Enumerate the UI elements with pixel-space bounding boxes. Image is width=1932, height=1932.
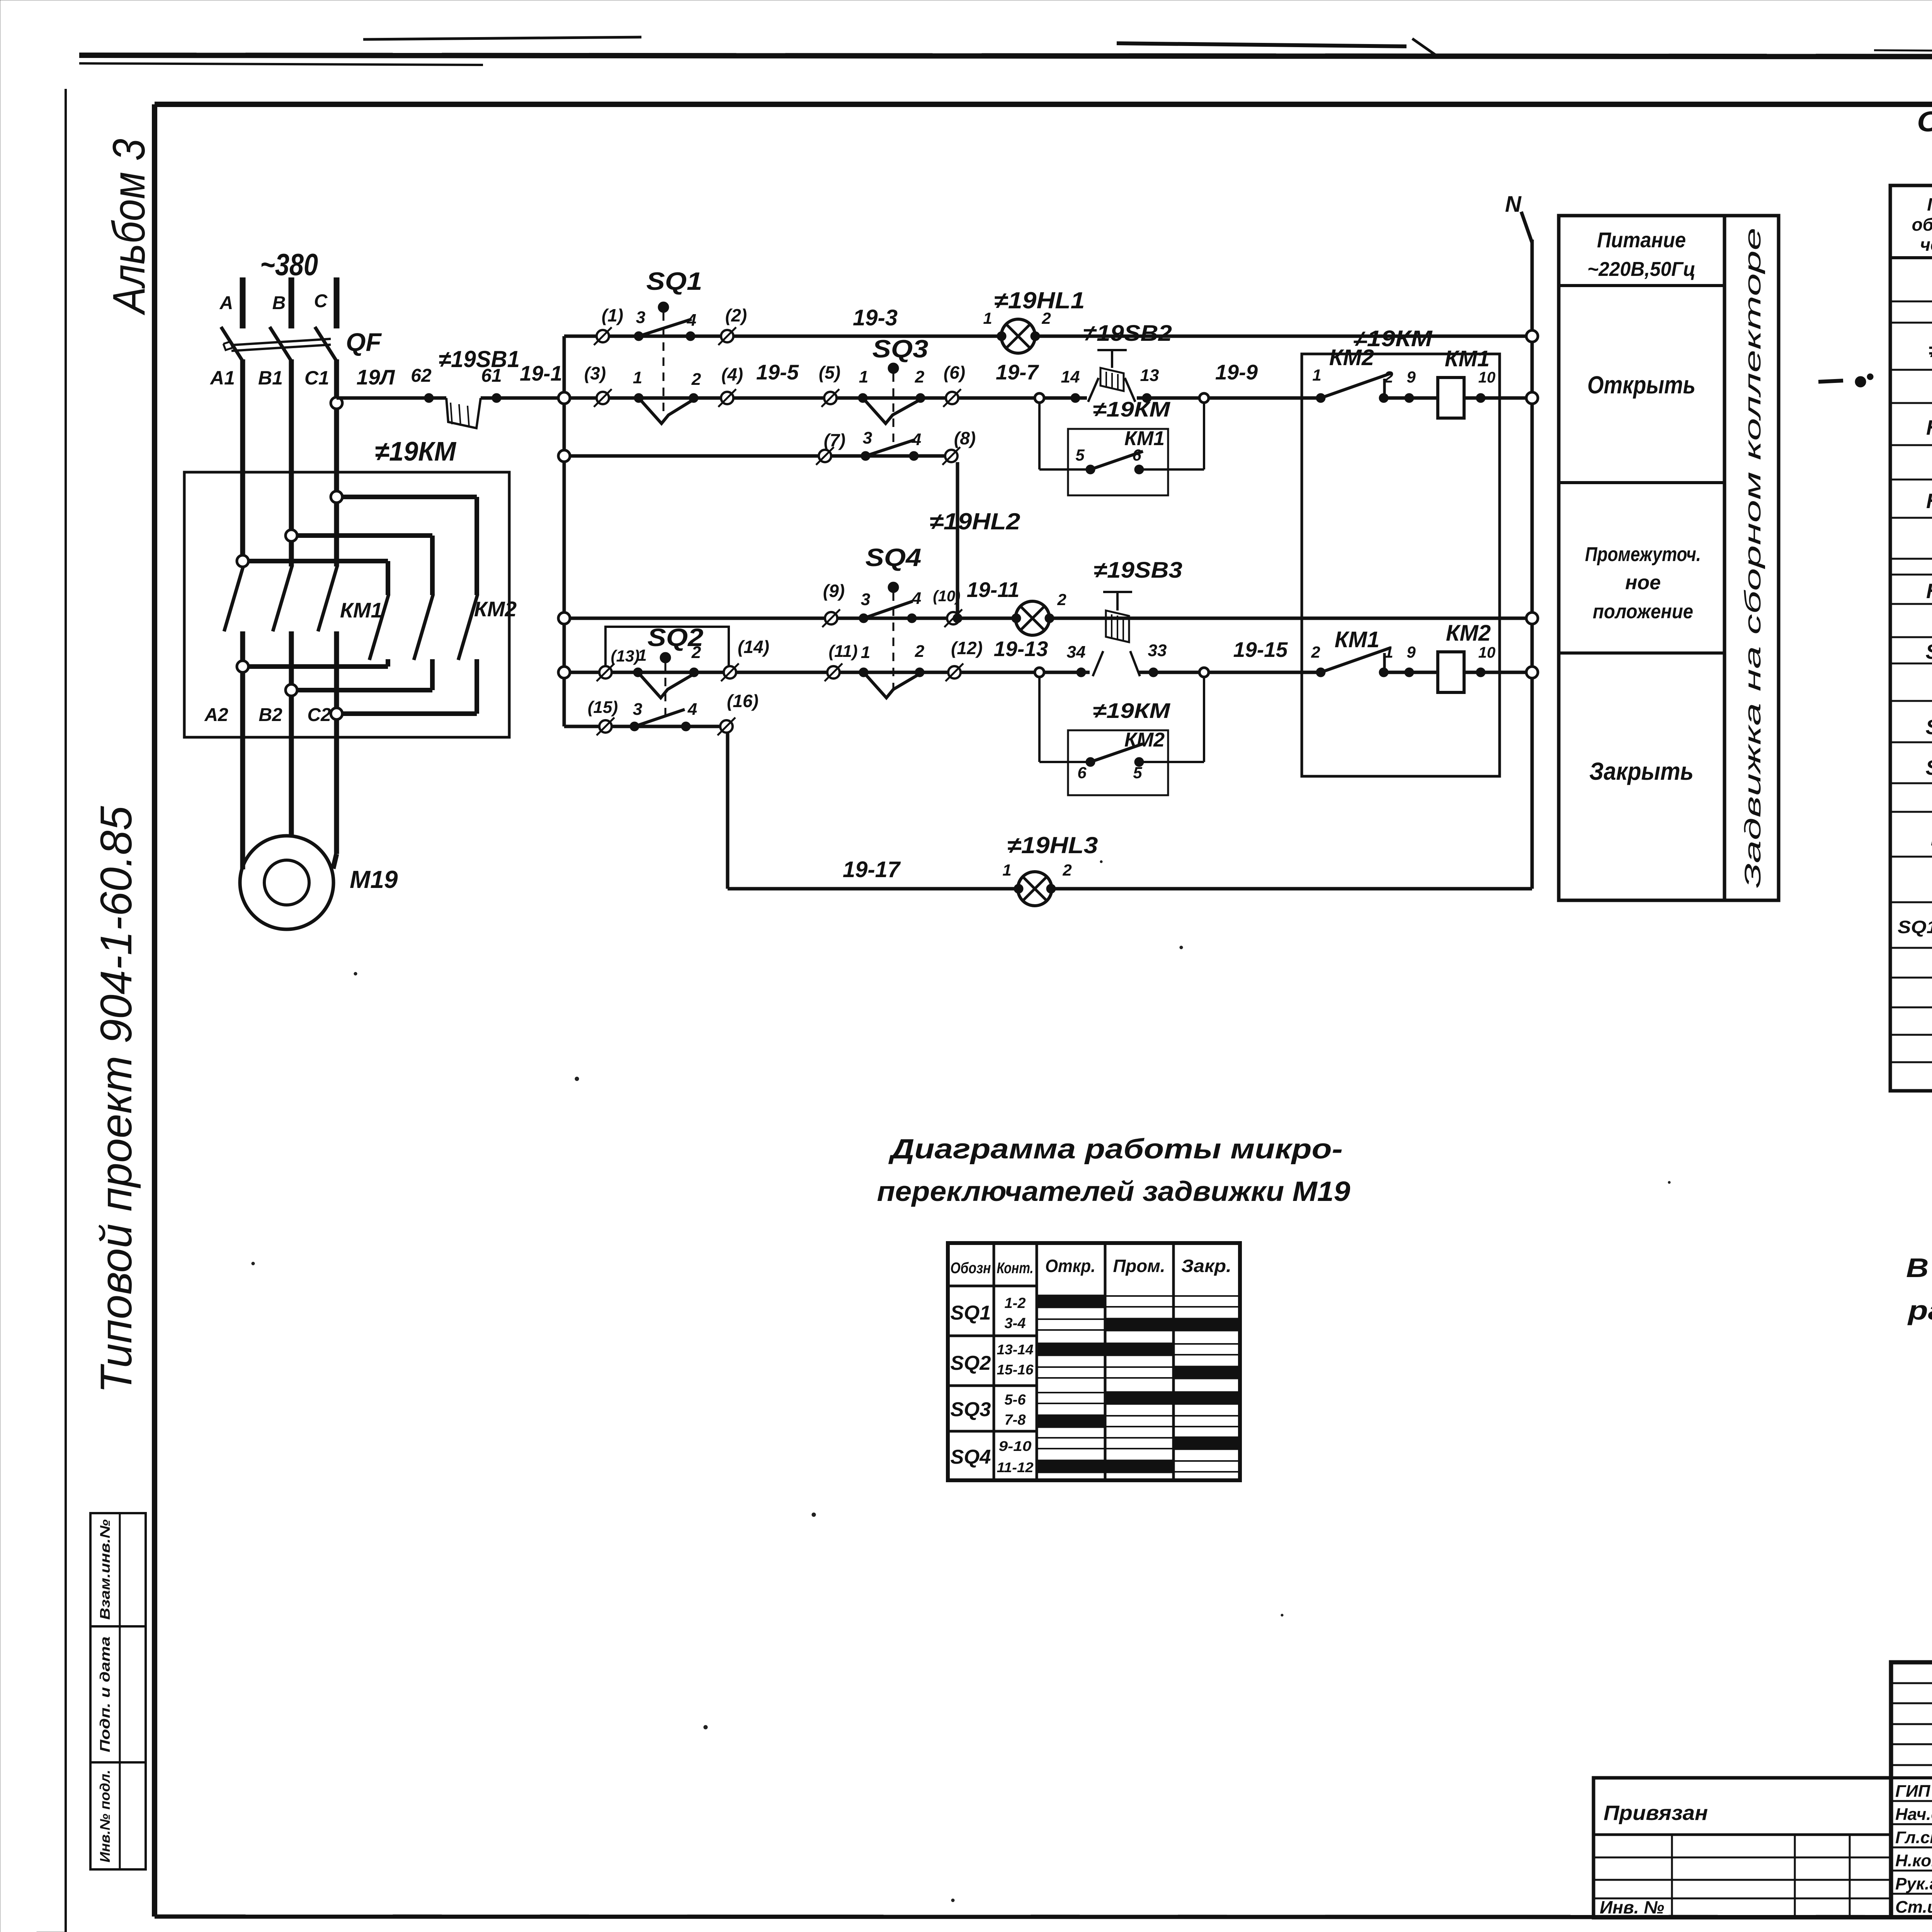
svg-text:SQ3: SQ3 [872, 335, 929, 363]
svg-text:2: 2 [1311, 643, 1320, 661]
svg-text:3-4: 3-4 [1005, 1315, 1026, 1332]
svg-text:SВ1: SВ1 [1925, 640, 1932, 663]
svg-text:19-15: 19-15 [1233, 638, 1288, 662]
svg-text:Закрыть: Закрыть [1589, 757, 1694, 785]
svg-text:9: 9 [1406, 368, 1416, 386]
svg-text:1: 1 [859, 367, 868, 386]
svg-text:HL3: HL3 [1926, 580, 1932, 603]
svg-text:(1): (1) [602, 305, 623, 325]
svg-text:3: 3 [863, 429, 872, 447]
svg-text:Типовой проект 904-1-60.85: Типовой проект 904-1-60.85 [92, 806, 141, 1393]
svg-text:~380: ~380 [260, 247, 318, 282]
svg-text:6: 6 [1132, 446, 1141, 464]
svg-text:2: 2 [1057, 590, 1066, 609]
svg-text:А: А [219, 293, 233, 313]
svg-text:1: 1 [1002, 861, 1011, 879]
svg-text:чение: чение [1920, 235, 1932, 255]
svg-text:КМ1: КМ1 [1335, 627, 1379, 652]
svg-text:1: 1 [1384, 643, 1393, 661]
svg-text:≠19КМ: ≠19КМ [375, 436, 457, 466]
svg-text:~220В,50Гц: ~220В,50Гц [1587, 258, 1696, 281]
svg-text:В2: В2 [259, 705, 282, 725]
svg-text:обозна-: обозна- [1912, 214, 1932, 235]
svg-text:2: 2 [1062, 861, 1071, 879]
svg-text:4: 4 [912, 430, 921, 449]
svg-text:(3): (3) [584, 363, 606, 383]
svg-text:62: 62 [411, 366, 432, 386]
svg-text:SВ3: SВ3 [1925, 756, 1932, 779]
svg-text:Альбом 3: Альбом 3 [104, 139, 155, 315]
svg-text:С2: С2 [307, 705, 331, 725]
svg-text:19-11: 19-11 [967, 578, 1020, 602]
svg-text:Подп. и дата: Подп. и дата [97, 1636, 113, 1752]
svg-text:≠19: ≠19 [1929, 339, 1932, 362]
svg-text:19-3: 19-3 [853, 305, 898, 330]
svg-text:19-13: 19-13 [994, 637, 1048, 661]
svg-text:5: 5 [1133, 764, 1142, 782]
svg-text:1: 1 [1312, 366, 1321, 384]
svg-text:19-1: 19-1 [520, 361, 562, 385]
svg-text:1-2: 1-2 [1005, 1295, 1026, 1311]
svg-text:9-10: 9-10 [999, 1438, 1032, 1454]
svg-text:(4): (4) [721, 364, 743, 384]
svg-text:Пром.: Пром. [1113, 1256, 1165, 1276]
svg-text:(6): (6) [944, 362, 965, 383]
svg-text:1: 1 [861, 643, 870, 662]
svg-text:SQ1: SQ1 [951, 1302, 991, 1324]
svg-text:3: 3 [861, 590, 870, 609]
svg-text:13-14: 13-14 [997, 1342, 1034, 1357]
svg-text:SQ1...SQ4: SQ1...SQ4 [1898, 917, 1932, 937]
svg-text:Промежуточ.: Промежуточ. [1585, 543, 1701, 566]
svg-text:КМ1: КМ1 [1445, 346, 1490, 371]
svg-text:7-8: 7-8 [1005, 1412, 1026, 1428]
svg-text:С: С [314, 291, 328, 311]
svg-text:Привязан: Привязан [1604, 1801, 1708, 1825]
svg-text:В: В [272, 293, 286, 313]
svg-text:(9): (9) [823, 581, 845, 601]
svg-text:(13): (13) [611, 647, 640, 665]
svg-text:А2: А2 [204, 705, 228, 725]
svg-text:разъема задвижки М19.: разъема задвижки М19. [1907, 1295, 1932, 1325]
svg-text:10: 10 [1478, 644, 1496, 661]
svg-text:(5): (5) [819, 362, 840, 383]
svg-text:SQ2: SQ2 [951, 1352, 991, 1374]
svg-text:Гл.спец.: Гл.спец. [1895, 1828, 1932, 1847]
svg-text:SQ1: SQ1 [646, 267, 702, 295]
svg-text:Инв. №: Инв. № [1600, 1897, 1664, 1917]
svg-text:положение: положение [1593, 600, 1693, 623]
svg-text:HL2: HL2 [1926, 490, 1932, 513]
svg-text:14: 14 [1061, 367, 1080, 386]
svg-text:19-9: 19-9 [1215, 360, 1258, 384]
svg-text:4: 4 [687, 311, 696, 330]
svg-text:34: 34 [1067, 643, 1086, 662]
svg-text:≠19SВ1: ≠19SВ1 [439, 346, 520, 372]
svg-text:Закр.: Закр. [1181, 1256, 1231, 1276]
svg-text:1: 1 [633, 368, 642, 387]
svg-text:Поз.: Поз. [1927, 194, 1932, 214]
svg-text:SQ4: SQ4 [951, 1446, 991, 1468]
svg-text:Рук.гр.: Рук.гр. [1895, 1874, 1932, 1893]
svg-text:19-17: 19-17 [843, 857, 901, 882]
svg-text:SВ2: SВ2 [1925, 716, 1932, 739]
svg-text:≠19КМ: ≠19КМ [1353, 326, 1433, 351]
svg-text:33: 33 [1148, 641, 1167, 660]
svg-text:КМ2: КМ2 [1446, 621, 1491, 646]
svg-text:ГИП: ГИП [1895, 1782, 1931, 1801]
svg-text:2: 2 [915, 367, 925, 386]
svg-text:Инв.№ подл.: Инв.№ подл. [97, 1770, 113, 1862]
svg-text:13: 13 [1140, 366, 1159, 385]
svg-text:3: 3 [636, 308, 645, 327]
svg-text:(15): (15) [588, 698, 618, 717]
svg-text:19Л: 19Л [357, 365, 395, 389]
svg-text:SQ4: SQ4 [866, 543, 922, 571]
svg-text:5: 5 [1075, 446, 1085, 464]
svg-text:М19: М19 [350, 866, 398, 893]
svg-text:N: N [1505, 192, 1522, 217]
svg-text:≠19HL1: ≠19HL1 [994, 287, 1085, 313]
svg-text:≠19SВ3: ≠19SВ3 [1094, 558, 1182, 583]
svg-text:3: 3 [633, 700, 642, 719]
svg-text:Обозн: Обозн [951, 1260, 991, 1277]
svg-text:Задвижка на сборном коллект: Задвижка на сборном коллекторе [1740, 228, 1765, 888]
svg-text:19-7: 19-7 [996, 360, 1039, 384]
svg-text:≠19HL2: ≠19HL2 [930, 509, 1020, 534]
svg-text:1: 1 [983, 309, 992, 327]
svg-text:(12): (12) [951, 638, 983, 658]
svg-text:(8): (8) [954, 428, 976, 448]
svg-text:10: 10 [1478, 369, 1496, 386]
svg-text:4: 4 [687, 700, 697, 719]
svg-text:Ст.инж.: Ст.инж. [1895, 1898, 1932, 1917]
svg-text:≠19HL3: ≠19HL3 [1007, 832, 1098, 858]
svg-text:Нач.отд.: Нач.отд. [1895, 1805, 1932, 1824]
svg-text:Спецификация принципиальной: Спецификация принципиальной электрическо… [1917, 105, 1932, 138]
svg-text:2: 2 [691, 643, 701, 662]
svg-text:ное: ное [1625, 571, 1661, 594]
svg-text:Конт.: Конт. [997, 1260, 1034, 1277]
svg-text:(7): (7) [824, 430, 845, 450]
svg-text:С1: С1 [304, 367, 329, 389]
svg-text:переключателей задвижки М19: переключателей задвижки М19 [877, 1176, 1350, 1207]
svg-text:(2): (2) [725, 305, 747, 325]
svg-text:КМ2: КМ2 [474, 597, 517, 621]
svg-text:SQ3: SQ3 [951, 1398, 991, 1421]
svg-text:11-12: 11-12 [997, 1459, 1034, 1475]
svg-text:2: 2 [691, 370, 701, 389]
svg-text:4: 4 [912, 589, 921, 608]
svg-text:КМ1: КМ1 [1124, 427, 1165, 450]
svg-text:(10): (10) [933, 588, 960, 605]
svg-text:Питание: Питание [1597, 228, 1686, 252]
svg-text:QF: QF [346, 328, 382, 356]
svg-text:Открыть: Открыть [1587, 371, 1696, 399]
svg-text:1: 1 [638, 646, 646, 664]
svg-text:Диаграмма работы микро-: Диаграмма работы микро- [888, 1134, 1343, 1165]
svg-text:19-5: 19-5 [756, 360, 799, 384]
svg-text:2: 2 [1384, 368, 1393, 386]
svg-text:6: 6 [1077, 764, 1087, 782]
svg-text:≠19КМ: ≠19КМ [1093, 397, 1170, 421]
svg-text:15-16: 15-16 [997, 1362, 1034, 1378]
svg-text:HL1: HL1 [1926, 416, 1932, 439]
svg-text:(16): (16) [727, 691, 759, 711]
svg-text:≠19SВ2: ≠19SВ2 [1083, 321, 1172, 346]
svg-text:≠19КМ: ≠19КМ [1093, 699, 1170, 723]
svg-text:Откр.: Откр. [1045, 1256, 1095, 1276]
svg-text:В скобках указаны маркировк: В скобках указаны маркировки штепсельног… [1906, 1253, 1932, 1283]
svg-text:9: 9 [1406, 643, 1416, 661]
svg-text:КМ2: КМ2 [1124, 729, 1165, 751]
svg-text:КМ1: КМ1 [340, 598, 383, 622]
svg-text:Взам.инв.№: Взам.инв.№ [97, 1519, 113, 1620]
svg-text:А1: А1 [209, 367, 235, 389]
svg-text:(14): (14) [738, 637, 769, 657]
svg-text:В1: В1 [258, 367, 283, 389]
svg-text:2: 2 [915, 642, 925, 661]
svg-text:5-6: 5-6 [1005, 1392, 1026, 1408]
svg-text:(11): (11) [829, 642, 858, 661]
svg-text:Н.контр.: Н.контр. [1895, 1851, 1932, 1870]
